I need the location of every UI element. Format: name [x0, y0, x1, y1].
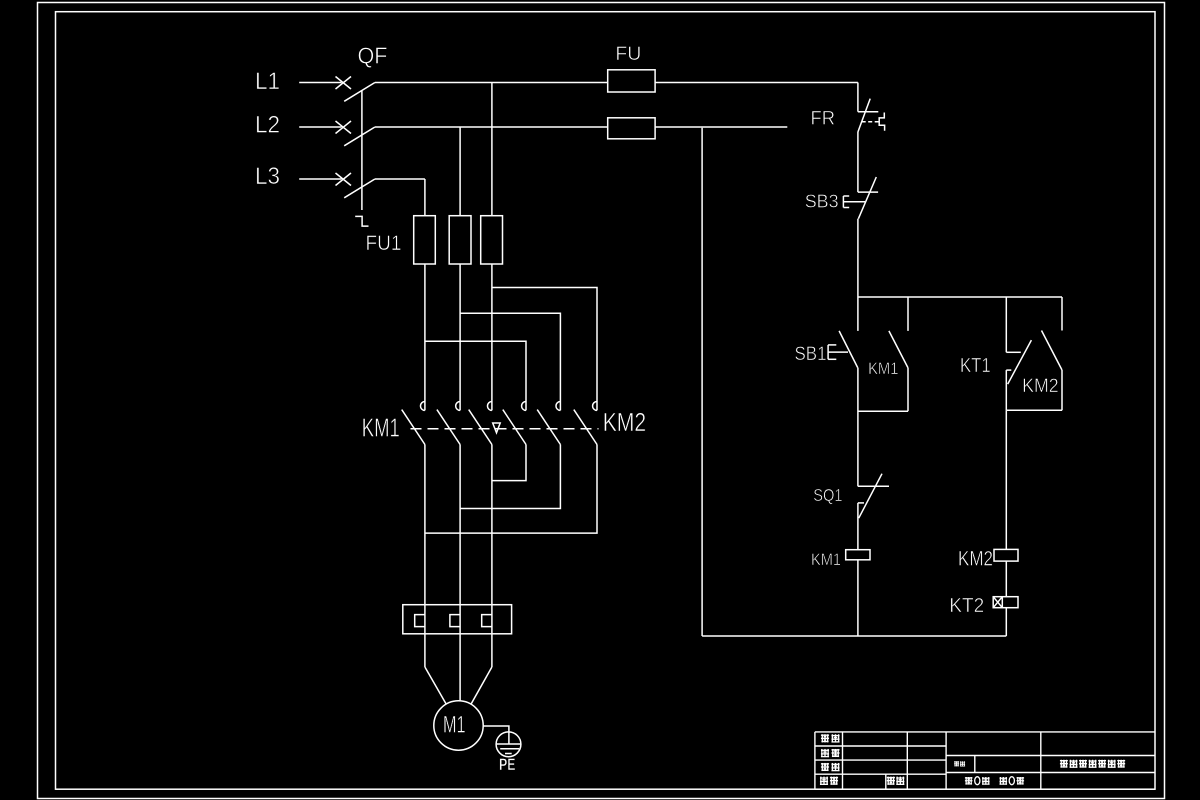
svg-text:SB1: SB1 — [795, 344, 827, 365]
svg-text:FU1: FU1 — [366, 231, 402, 255]
svg-text:FU: FU — [615, 43, 641, 65]
svg-text:KM2: KM2 — [958, 547, 993, 571]
svg-text:L3: L3 — [255, 163, 280, 190]
svg-text:M1: M1 — [443, 712, 466, 739]
svg-text:KT1: KT1 — [960, 355, 991, 377]
svg-text:KM1: KM1 — [362, 413, 400, 443]
svg-text:QF: QF — [358, 43, 388, 69]
svg-text:L2: L2 — [255, 112, 280, 139]
svg-text:FR: FR — [811, 109, 836, 130]
svg-text:KM2: KM2 — [603, 407, 647, 437]
svg-text:PE: PE — [499, 755, 516, 774]
svg-text:SQ1: SQ1 — [813, 485, 842, 505]
svg-text:KM1: KM1 — [868, 359, 898, 378]
svg-text:SB3: SB3 — [805, 191, 839, 212]
svg-text:KM1: KM1 — [811, 551, 841, 569]
svg-text:KM2: KM2 — [1022, 376, 1059, 397]
svg-text:KT2: KT2 — [949, 595, 984, 617]
svg-text:L1: L1 — [255, 68, 280, 95]
